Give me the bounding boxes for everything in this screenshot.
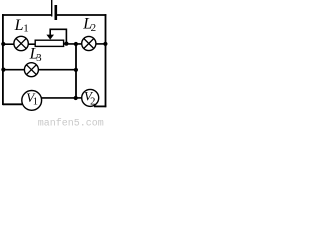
label L2 (82, 15, 96, 34)
wire bottom left to voltmeter V1 (3, 103, 22, 105)
wire junction to voltmeter V2 (76, 97, 82, 99)
wire row A from left rail to lamp L1 (3, 43, 14, 45)
battery B1 short thick plate (54, 5, 57, 20)
wire voltmeter V1 to mid vertical (42, 97, 76, 99)
lamp L2 (circle with X) (82, 36, 96, 50)
svg-text:2: 2 (91, 22, 97, 34)
label L1 (14, 17, 29, 35)
wire row B from left rail to lamp L3 (3, 69, 25, 71)
wire right rail (105, 14, 107, 107)
voltmeter V1 (22, 90, 42, 110)
wire row A rheostat to lamp L2 (64, 43, 82, 45)
lamp L1 (circle with X) (14, 36, 28, 50)
svg-text:L: L (14, 17, 24, 34)
node junction dot row A mid vertical (74, 42, 78, 46)
svg-text:1: 1 (23, 23, 29, 35)
wire row A lamp L1 to rheostat (28, 43, 35, 45)
wire voltmeter V2 to right rail (94, 105, 106, 107)
node junction dot row B mid vertical (74, 68, 78, 72)
node junction dot rheostat right terminal (64, 42, 68, 46)
wire top rail left segment (2, 14, 51, 16)
wire mid vertical bus (75, 44, 77, 98)
wire top rail right segment (57, 14, 106, 16)
voltmeter V2 (82, 89, 99, 108)
label L3 (29, 45, 42, 64)
node junction dot right rail row A (103, 42, 107, 46)
svg-text:manfen5.com: manfen5.com (38, 118, 104, 127)
lamp L3 (circle with X) (24, 63, 38, 77)
node junction dot bottom mid vertical (74, 96, 78, 100)
wire row B lamp L3 to mid vertical (38, 69, 76, 71)
svg-text:3: 3 (36, 52, 42, 64)
battery B1 long plate (51, 0, 53, 17)
node junction dot left rail row B (1, 68, 5, 72)
wire left rail (2, 14, 4, 105)
wire row A lamp L2 to right rail (96, 43, 106, 45)
rheostat slider arrow (46, 29, 66, 43)
rheostat R body (35, 40, 63, 46)
watermark manfen5.com (38, 118, 104, 130)
svg-text:1: 1 (33, 97, 38, 108)
node junction dot left rail row A (1, 42, 5, 46)
